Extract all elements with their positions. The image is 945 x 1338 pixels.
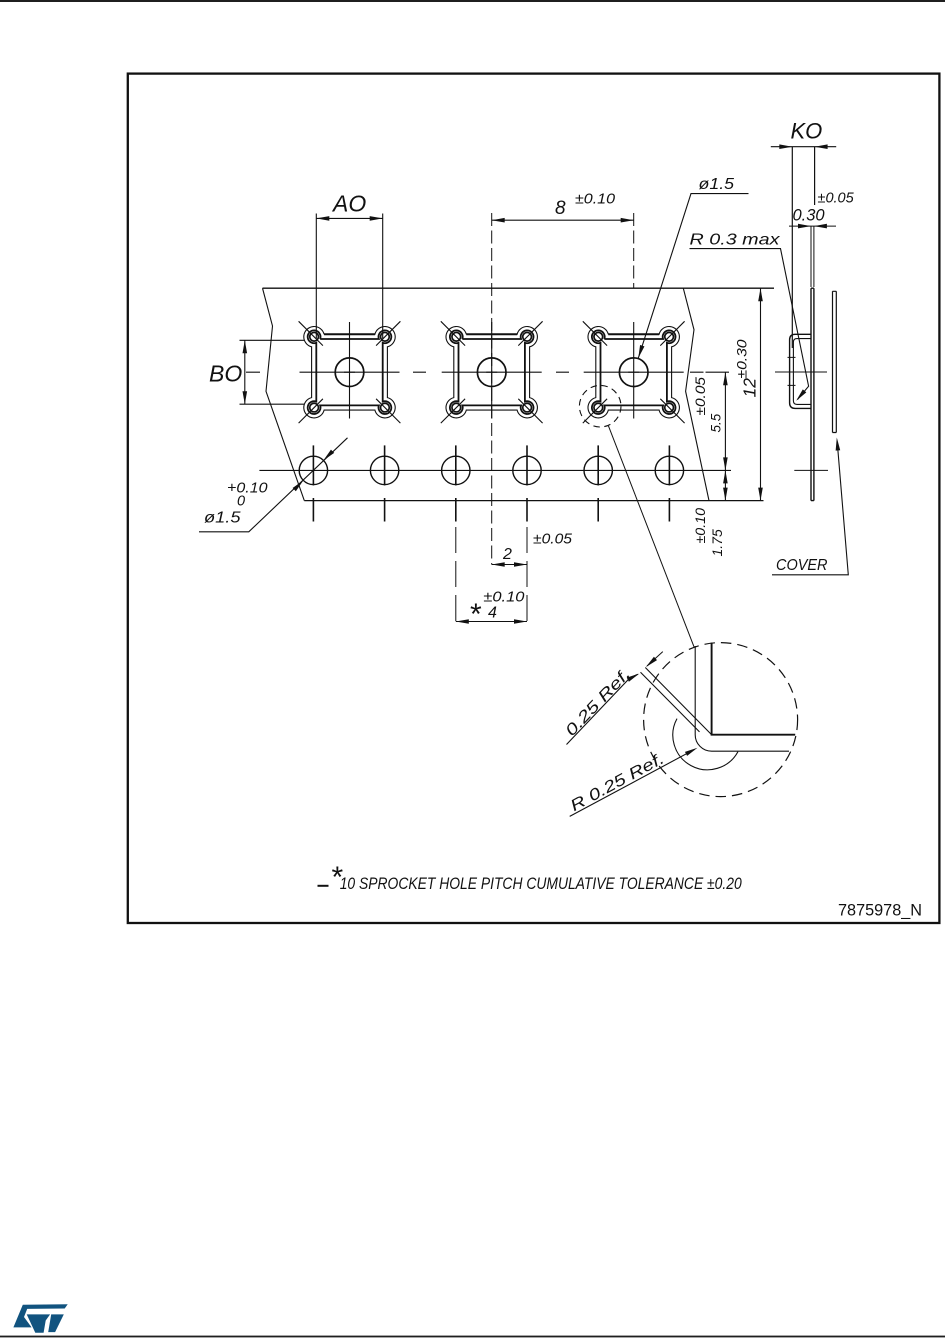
sprocket hole 3 <box>442 456 470 484</box>
page footer rule <box>0 1336 945 1338</box>
detail source circle (dashed) on pocket 3 corner <box>579 385 621 427</box>
svg-text:5.5: 5.5 <box>709 413 724 432</box>
label R 0.25 Ref <box>568 746 699 817</box>
pocket 3 vertical centerline ext (dashed) <box>633 213 635 288</box>
svg-text:2: 2 <box>502 546 512 563</box>
drawing frame <box>128 74 940 923</box>
dimension 4 (sprocket pitch) <box>456 589 527 632</box>
side view sprocket centerline <box>794 469 828 471</box>
dimension KO <box>771 119 836 349</box>
side view pocket centerline <box>775 371 827 373</box>
sprocket hole 2 <box>370 456 398 484</box>
svg-text:±0.10: ±0.10 <box>483 589 525 606</box>
dimension 12 tape width <box>734 288 763 500</box>
detail: pocket wall outer edge with R0.25 fillet <box>695 646 789 751</box>
svg-text:±0.05: ±0.05 <box>692 377 708 416</box>
svg-text:12: 12 <box>740 378 760 398</box>
svg-text:BO: BO <box>209 361 242 387</box>
svg-text:1.75: 1.75 <box>709 529 725 556</box>
note sprocket hole pitch tolerance <box>318 861 743 894</box>
component pocket 1 <box>299 321 401 423</box>
leader pocket center hole dia 1.5 <box>636 176 748 359</box>
svg-text:+0.10: +0.10 <box>227 480 268 497</box>
dimension BO <box>209 340 305 404</box>
svg-text:8: 8 <box>555 198 566 219</box>
svg-text:AO: AO <box>331 191 366 217</box>
carrier tape top edge <box>263 287 775 289</box>
leader sprocket hole dia 1.5 <box>199 438 348 532</box>
svg-text:±0.05: ±0.05 <box>533 530 573 547</box>
page header rule <box>0 0 945 2</box>
detail: 0.25 wall thickness extension lines <box>641 668 712 735</box>
dimension 0.25 Ref <box>563 652 663 745</box>
svg-text:±0.10: ±0.10 <box>692 508 708 544</box>
leader R 0.3 max <box>690 232 809 403</box>
svg-text:±0.10: ±0.10 <box>575 191 616 208</box>
svg-text:10 SPROCKET HOLE PITCH CUMULAT: 10 SPROCKET HOLE PITCH CUMULATIVE TOLERA… <box>340 875 743 893</box>
side view pocket bump outer <box>790 334 811 408</box>
sprocket hole 5 <box>584 456 612 484</box>
svg-text:±0.05: ±0.05 <box>818 191 855 207</box>
svg-text:±0.30: ±0.30 <box>734 339 750 378</box>
svg-text:0.30: 0.30 <box>793 207 826 225</box>
dimension 2 <box>492 530 573 567</box>
svg-text:KO: KO <box>791 119 823 144</box>
tape right break edge <box>683 288 709 500</box>
svg-text:4: 4 <box>488 604 497 621</box>
dimension 8 pocket pitch <box>492 191 634 223</box>
svg-text:COVER: COVER <box>776 557 828 574</box>
sprocket hole 1 <box>299 456 327 484</box>
sprocket row centerline <box>259 469 731 471</box>
svg-text:0: 0 <box>237 494 245 510</box>
dimension AO <box>316 191 382 339</box>
cover tape <box>833 291 837 432</box>
dimension 1.75 <box>692 470 728 556</box>
tape left break edge <box>263 288 305 500</box>
svg-text:ø1.5: ø1.5 <box>204 510 241 527</box>
dimension 0.30 tape thickness <box>789 191 855 288</box>
ext line sprocket hole 3 (dashed) <box>455 527 457 622</box>
detail circle (dashed) <box>644 643 798 797</box>
side view pocket bump inner <box>793 339 811 405</box>
sprocket hole 4 <box>513 456 541 484</box>
carrier tape bottom edge <box>304 500 763 502</box>
component pocket 3 <box>583 321 685 423</box>
ext line sprocket hole 4 (dashed) <box>526 527 528 622</box>
side view tape section <box>811 288 814 500</box>
pocket row centerline <box>246 371 704 373</box>
svg-text:R 0.3 max: R 0.3 max <box>690 232 781 249</box>
ST logo <box>13 1304 67 1333</box>
leader to detail circle <box>608 426 694 648</box>
svg-text:ø1.5: ø1.5 <box>699 176 735 193</box>
svg-text:7875978_N: 7875978_N <box>838 901 922 920</box>
dimension 5.5 <box>692 372 729 470</box>
component pocket 2 <box>441 321 543 423</box>
sprocket hole 6 <box>655 456 683 484</box>
label COVER <box>772 437 848 575</box>
pocket 2 vertical centerline (dashed) <box>491 213 493 565</box>
detail: pocket wall inner edge <box>712 643 796 735</box>
svg-text:*: * <box>470 598 482 631</box>
detail: ear arc <box>673 719 738 770</box>
side view bump ticks <box>788 357 796 385</box>
